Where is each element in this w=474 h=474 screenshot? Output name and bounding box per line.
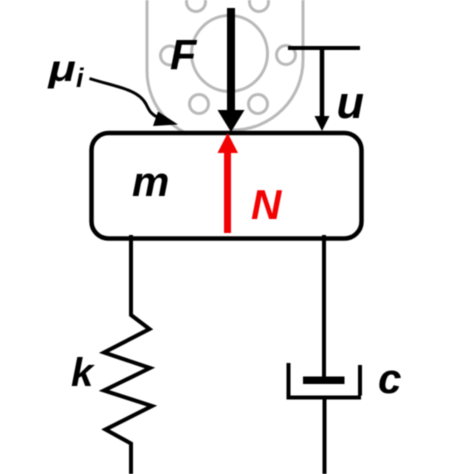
svg-text:k: k: [71, 351, 95, 395]
svg-text:c: c: [378, 355, 401, 402]
svg-text:N: N: [251, 181, 283, 228]
svg-text:μ: μ: [47, 48, 75, 89]
svg-text:i: i: [76, 63, 84, 93]
svg-text:m: m: [132, 158, 169, 205]
svg-text:u: u: [337, 77, 365, 128]
svg-text:F: F: [170, 32, 198, 80]
